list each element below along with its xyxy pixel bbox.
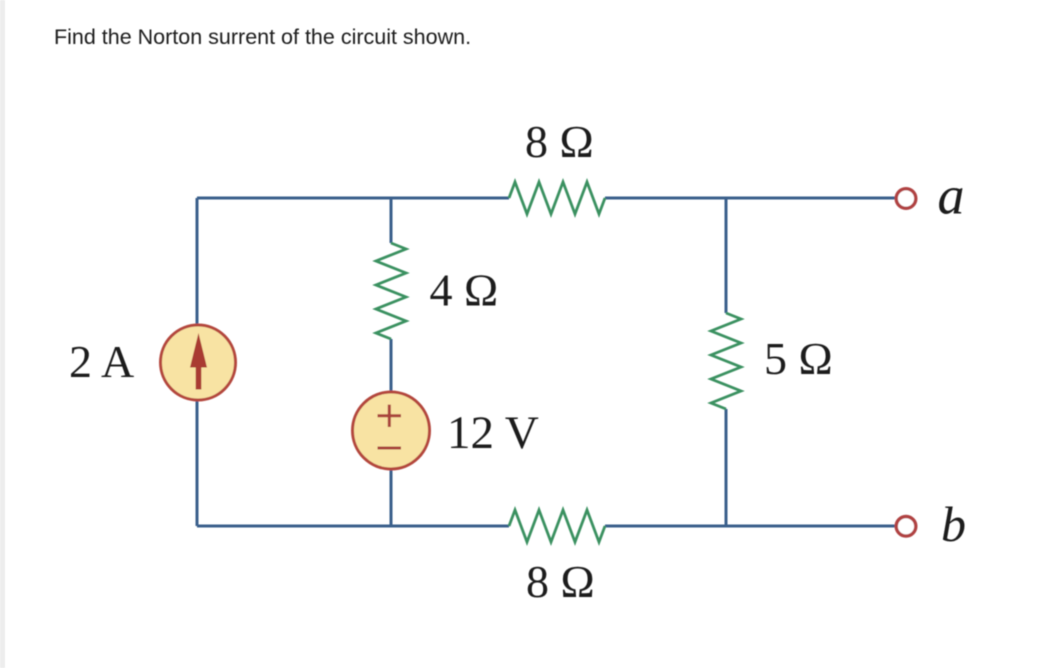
- svg-text:Find the Norton surrent of the: Find the Norton surrent of the circuit s…: [54, 25, 471, 49]
- svg-text:8 Ω: 8 Ω: [526, 556, 595, 607]
- svg-text:12 V: 12 V: [447, 407, 539, 459]
- svg-text:a: a: [938, 166, 965, 226]
- svg-text:b: b: [941, 496, 966, 552]
- svg-text:8 Ω: 8 Ω: [525, 116, 594, 167]
- svg-text:5 Ω: 5 Ω: [764, 333, 833, 384]
- svg-text:4 Ω: 4 Ω: [430, 265, 499, 316]
- svg-text:2 A: 2 A: [69, 336, 134, 387]
